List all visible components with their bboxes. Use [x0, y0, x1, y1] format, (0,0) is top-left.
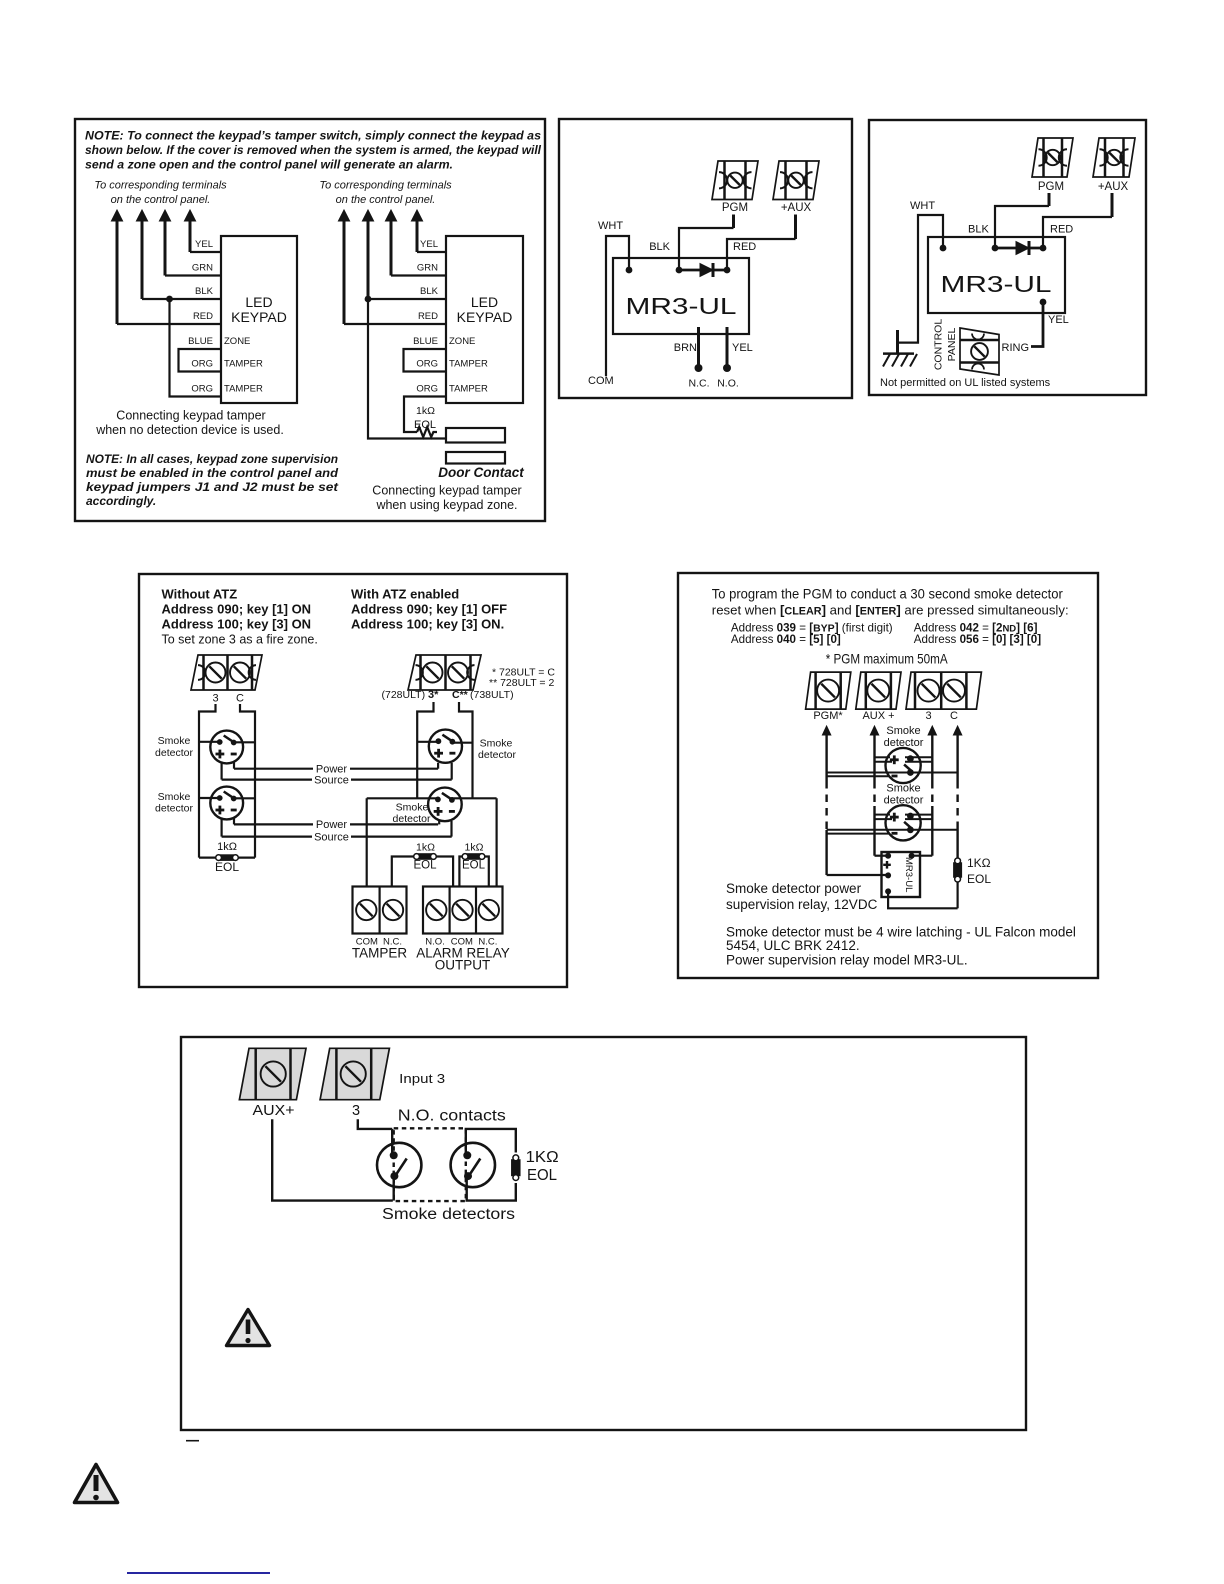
svg-text:PGM: PGM — [1038, 181, 1064, 193]
svg-text:TAMPER: TAMPER — [449, 384, 488, 395]
svg-text:must be enabled in the control: must be enabled in the control panel and — [86, 466, 339, 480]
svg-text:detector: detector — [155, 747, 193, 759]
svg-text:YEL: YEL — [1048, 314, 1069, 326]
svg-text:C: C — [950, 710, 958, 722]
svg-text:detector: detector — [155, 803, 193, 815]
svg-text:Smoke: Smoke — [886, 725, 920, 737]
svg-text:ORG: ORG — [191, 359, 213, 370]
svg-text:N.C.: N.C. — [689, 378, 710, 390]
svg-text:MR3-UL: MR3-UL — [903, 857, 914, 892]
svg-text:NOTE: To connect the keypad’s: NOTE: To connect the keypad’s tamper swi… — [85, 131, 541, 143]
svg-text:(738ULT): (738ULT) — [470, 689, 514, 701]
svg-text:ZONE: ZONE — [449, 336, 475, 347]
svg-text:+AUX: +AUX — [781, 202, 812, 214]
svg-text:** 728ULT = 2: ** 728ULT = 2 — [489, 677, 554, 689]
svg-text:1KΩ: 1KΩ — [967, 856, 991, 870]
svg-text:With ATZ enabled: With ATZ enabled — [351, 586, 459, 601]
svg-text:1kΩ: 1kΩ — [465, 842, 484, 854]
svg-text:C: C — [236, 693, 244, 705]
svg-text:detector: detector — [478, 749, 516, 761]
svg-text:1kΩ: 1kΩ — [416, 405, 435, 417]
svg-text:To set zone 3 as a fire zone.: To set zone 3 as a fire zone. — [162, 633, 318, 647]
svg-text:RED: RED — [418, 311, 438, 322]
svg-text:when using keypad zone.: when using keypad zone. — [375, 498, 517, 512]
svg-text:AUX +: AUX + — [862, 710, 894, 722]
svg-text:1kΩ: 1kΩ — [217, 841, 237, 853]
svg-text:shown below. If the cover is r: shown below. If the cover is removed whe… — [85, 145, 542, 157]
svg-text:Connecting keypad tamper: Connecting keypad tamper — [372, 484, 521, 498]
svg-text:MR3-UL: MR3-UL — [626, 293, 737, 319]
svg-text:AUX+: AUX+ — [253, 1103, 295, 1119]
svg-text:Smoke: Smoke — [886, 783, 920, 795]
svg-text:PGM*: PGM* — [813, 710, 843, 722]
svg-text:reset when [CLEAR] and [ENTER]: reset when [CLEAR] and [ENTER] are press… — [712, 603, 1069, 618]
svg-text:NOTE: In all cases, keypad zon: NOTE: In all cases, keypad zone supervis… — [86, 452, 338, 466]
svg-text:Address 056 = [0] [3] [0]: Address 056 = [0] [3] [0] — [914, 633, 1041, 646]
svg-text:Smoke: Smoke — [158, 791, 191, 803]
svg-text:Smoke detectors: Smoke detectors — [382, 1206, 515, 1223]
svg-text:TAMPER: TAMPER — [224, 384, 263, 395]
svg-text:GRN: GRN — [417, 263, 438, 274]
svg-text:Smoke: Smoke — [396, 802, 429, 814]
svg-text:on the control panel.: on the control panel. — [336, 194, 436, 206]
svg-text:keypad jumpers J1 and J2 must: keypad jumpers J1 and J2 must be set — [86, 480, 339, 494]
svg-text:ORG: ORG — [416, 359, 438, 370]
svg-text:KEYPAD: KEYPAD — [457, 309, 513, 325]
svg-text:YEL: YEL — [732, 342, 753, 354]
svg-text:LED: LED — [245, 294, 272, 310]
svg-text:supervision relay, 12VDC: supervision relay, 12VDC — [726, 897, 878, 912]
svg-text:Power: Power — [316, 819, 348, 831]
svg-text:To corresponding terminals: To corresponding terminals — [319, 180, 452, 192]
svg-text:To corresponding terminals: To corresponding terminals — [94, 180, 227, 192]
svg-text:N.O.: N.O. — [717, 378, 739, 390]
svg-text:Door Contact: Door Contact — [438, 465, 524, 480]
svg-text:on the control panel.: on the control panel. — [111, 194, 211, 206]
svg-text:3*: 3* — [428, 689, 439, 701]
svg-text:Address 100; key [3] ON: Address 100; key [3] ON — [162, 617, 312, 632]
svg-text:EOL: EOL — [967, 872, 991, 886]
svg-text:* PGM maximum 50mA: * PGM maximum 50mA — [826, 651, 949, 667]
svg-text:BRN: BRN — [674, 342, 697, 354]
svg-text:Smoke: Smoke — [158, 735, 191, 747]
svg-text:COM: COM — [588, 375, 614, 387]
svg-text:YEL: YEL — [195, 239, 213, 250]
svg-text:accordingly.: accordingly. — [86, 494, 156, 508]
svg-text:Address 090; key [1] OFF: Address 090; key [1] OFF — [351, 601, 507, 616]
svg-text:1KΩ: 1KΩ — [526, 1149, 559, 1166]
svg-text:Connecting keypad tamper: Connecting keypad tamper — [116, 409, 265, 423]
svg-text:EOL: EOL — [215, 860, 239, 874]
svg-text:(728ULT): (728ULT) — [382, 689, 429, 701]
svg-text:Smoke detector power: Smoke detector power — [726, 881, 862, 896]
svg-text:EOL: EOL — [414, 419, 436, 431]
svg-text:Source: Source — [314, 775, 349, 787]
svg-text:BLK: BLK — [968, 224, 989, 236]
svg-text:N.O. contacts: N.O. contacts — [398, 1108, 506, 1125]
svg-text:3: 3 — [212, 693, 218, 705]
svg-text:Address 040 = [5] [0]: Address 040 = [5] [0] — [731, 633, 841, 646]
svg-text:ZONE: ZONE — [224, 336, 250, 347]
svg-text:WHT: WHT — [598, 220, 623, 232]
svg-text:ORG: ORG — [416, 384, 438, 395]
svg-text:TAMPER: TAMPER — [224, 359, 263, 370]
svg-text:3: 3 — [352, 1103, 360, 1119]
svg-text:5454, ULC BRK 2412.: 5454, ULC BRK 2412. — [726, 938, 860, 953]
svg-text:detector: detector — [393, 813, 431, 825]
svg-text:KEYPAD: KEYPAD — [231, 309, 287, 325]
svg-text:EOL: EOL — [462, 860, 486, 872]
svg-text:CONTROL: CONTROL — [933, 319, 945, 370]
svg-text:BLK: BLK — [195, 286, 214, 297]
svg-text:Source: Source — [314, 831, 349, 843]
svg-text:RED: RED — [1050, 224, 1073, 236]
svg-text:C**: C** — [452, 689, 469, 701]
svg-text:RED: RED — [193, 311, 213, 322]
svg-text:BLK: BLK — [649, 241, 670, 253]
svg-text:Input 3: Input 3 — [399, 1071, 445, 1086]
svg-text:Power supervision relay model: Power supervision relay model MR3-UL. — [726, 953, 968, 968]
svg-text:WHT: WHT — [910, 200, 935, 212]
svg-text:3: 3 — [925, 710, 931, 722]
svg-text:send a zone open and the contr: send a zone open and the control panel w… — [85, 160, 453, 172]
svg-text:TAMPER: TAMPER — [449, 359, 488, 370]
svg-text:Not permitted on UL listed sys: Not permitted on UL listed systems — [880, 377, 1051, 389]
svg-text:LED: LED — [471, 294, 498, 310]
svg-text:+AUX: +AUX — [1098, 181, 1129, 193]
svg-text:Smoke: Smoke — [480, 738, 513, 750]
svg-text:Address 100; key [3] ON.: Address 100; key [3] ON. — [351, 617, 504, 632]
svg-text:RING: RING — [1002, 342, 1030, 354]
svg-text:Address 090; key [1] ON: Address 090; key [1] ON — [162, 601, 312, 616]
svg-text:EOL: EOL — [413, 860, 437, 872]
svg-text:OUTPUT: OUTPUT — [435, 958, 491, 973]
svg-text:PGM: PGM — [722, 202, 748, 214]
svg-text:when no detection device is us: when no detection device is used. — [95, 423, 284, 437]
svg-text:ORG: ORG — [191, 384, 213, 395]
svg-text:PANEL: PANEL — [946, 328, 958, 362]
svg-text:YEL: YEL — [420, 239, 438, 250]
svg-text:1kΩ: 1kΩ — [416, 842, 435, 854]
svg-text:TAMPER: TAMPER — [352, 946, 408, 961]
svg-text:BLK: BLK — [420, 286, 439, 297]
svg-text:MR3-UL: MR3-UL — [941, 271, 1052, 297]
svg-text:GRN: GRN — [192, 263, 213, 274]
svg-text:Without ATZ: Without ATZ — [162, 586, 238, 601]
svg-text:BLUE: BLUE — [188, 336, 213, 347]
svg-text:To program the PGM to conduct: To program the PGM to conduct a 30 secon… — [712, 586, 1063, 601]
svg-text:RED: RED — [733, 241, 756, 253]
svg-text:EOL: EOL — [527, 1167, 557, 1184]
svg-text:BLUE: BLUE — [413, 336, 438, 347]
